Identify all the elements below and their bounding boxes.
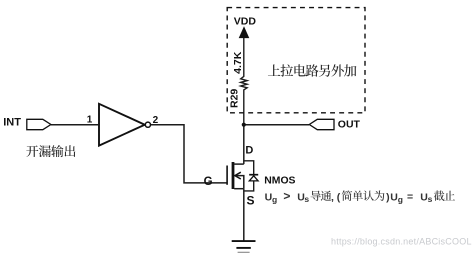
svg-text:https://blog.csdn.net/ABCisCOO: https://blog.csdn.net/ABCisCOOL	[331, 237, 472, 247]
svg-text:=: =	[407, 191, 413, 203]
svg-text:R29: R29	[229, 89, 241, 108]
svg-text:VDD: VDD	[234, 15, 257, 27]
svg-text:s: s	[304, 194, 309, 204]
svg-text:2: 2	[153, 115, 159, 126]
svg-text:g: g	[272, 194, 277, 204]
svg-text:): )	[386, 191, 390, 203]
svg-text:S: S	[247, 194, 255, 208]
svg-text:s: s	[428, 194, 433, 204]
svg-text:g: g	[398, 194, 403, 204]
svg-text:(: (	[337, 191, 341, 203]
svg-text:,: ,	[331, 191, 334, 203]
svg-text:G: G	[204, 176, 213, 188]
svg-text:4.7K: 4.7K	[232, 51, 244, 74]
svg-text:D: D	[245, 145, 253, 157]
svg-text:OUT: OUT	[338, 119, 361, 131]
svg-text:NMOS: NMOS	[264, 175, 295, 186]
svg-text:INT: INT	[3, 117, 21, 129]
svg-text:>: >	[283, 189, 290, 203]
svg-text:1: 1	[87, 115, 93, 126]
